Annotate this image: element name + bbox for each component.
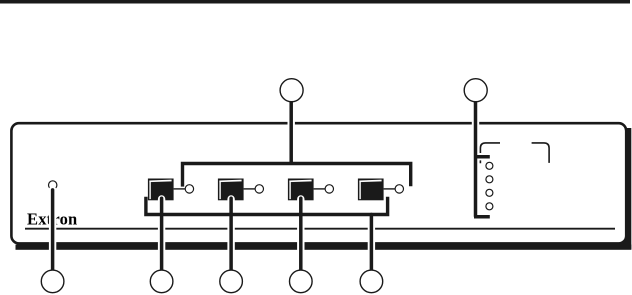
button group bracket (bottom) (146, 197, 388, 215)
right callout leader wire with bracket (474, 102, 490, 217)
LED lead wire 2 (244, 188, 256, 190)
logo underline rule (25, 228, 615, 230)
callout 3 leader wire (229, 198, 233, 273)
button B1 (148, 179, 174, 201)
LED lead wire 3 (314, 188, 326, 190)
front LED A2 (255, 185, 263, 193)
panel drop shadow bottom (16, 245, 632, 250)
callout circle 1 (41, 270, 64, 293)
LED group bracket (top) (183, 164, 411, 187)
callout 2 leader halo (158, 199, 165, 273)
callout circle 2 (150, 270, 173, 293)
front LED A3 (325, 185, 333, 193)
button B4 (358, 179, 384, 201)
callout circle 5 (360, 270, 383, 293)
top callout leader halo (288, 102, 295, 162)
callout 1 leader halo (49, 190, 56, 273)
status LED left (49, 181, 57, 189)
rear LED R1 (486, 162, 493, 169)
button B2 (218, 179, 244, 201)
page rule (top black bar) (0, 0, 630, 4)
top callout circle (280, 79, 303, 102)
LED lead wire 1 (174, 188, 186, 190)
callout 5 leader halo (368, 218, 375, 274)
callout 4 leader wire (299, 198, 303, 273)
button B3 (288, 179, 314, 201)
rear LED R4 (486, 203, 493, 210)
callout circle 3 (220, 270, 243, 293)
panel drop shadow corner fill (617, 236, 628, 246)
panel drop shadow right (626, 128, 631, 250)
front LED A1 (185, 185, 193, 193)
callout circle 4 (290, 270, 313, 293)
top callout leader wire (289, 102, 293, 164)
right callout leader halo (476, 102, 490, 217)
callout 1 leader wire (51, 190, 55, 273)
panel front face outline (11, 123, 626, 243)
rear LED R3 (486, 189, 493, 196)
LED lead wire 4 (384, 188, 396, 190)
rear LED R2 (486, 176, 493, 183)
callout 3 leader halo (227, 199, 234, 273)
front LED A4 (395, 185, 403, 193)
right callout circle (464, 79, 487, 102)
callout 5 leader wire (370, 215, 374, 274)
label area corner mark right (532, 143, 550, 163)
label area corner mark left (480, 143, 500, 163)
callout 4 leader halo (297, 199, 304, 273)
callout 2 leader wire (160, 198, 164, 273)
